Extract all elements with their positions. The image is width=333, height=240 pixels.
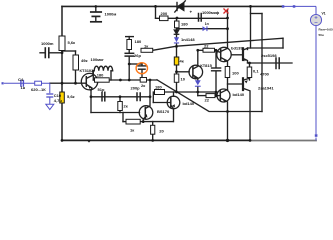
svg-text:bd140: bd140	[183, 101, 195, 106]
svg-text:10: 10	[181, 77, 186, 82]
svg-text:Rser=0.05: Rser=0.05	[319, 28, 333, 32]
svg-text:BS170: BS170	[157, 109, 170, 114]
svg-text:V1: V1	[322, 12, 326, 16]
svg-text:49к: 49к	[81, 58, 87, 63]
svg-text:100: 100	[232, 71, 239, 76]
svg-text:5,6к: 5,6к	[68, 40, 76, 45]
svg-text:200: 200	[161, 11, 168, 16]
svg-text:5,6к: 5,6к	[67, 94, 75, 99]
svg-text:26p: 26p	[134, 53, 141, 58]
svg-text:2к: 2к	[141, 83, 145, 88]
svg-text:1000мкф: 1000мкф	[202, 10, 220, 15]
svg-text:620...1К: 620...1К	[31, 87, 46, 92]
svg-text:22: 22	[205, 98, 210, 103]
svg-text:180: 180	[181, 22, 188, 27]
svg-text:100мкг: 100мкг	[91, 57, 105, 62]
svg-text:2к: 2к	[124, 104, 128, 109]
svg-text:20: 20	[159, 129, 164, 134]
svg-text:+: +	[190, 10, 193, 15]
svg-text:C4: C4	[18, 77, 24, 82]
svg-text:КТ815: КТ815	[200, 63, 212, 68]
svg-text:1к: 1к	[144, 44, 148, 49]
svg-text:4к: 4к	[180, 59, 184, 64]
svg-text:1n4148: 1n4148	[181, 37, 195, 42]
svg-text:1н: 1н	[205, 22, 209, 26]
svg-text:180: 180	[97, 73, 104, 78]
svg-text:1000м: 1000м	[105, 11, 117, 16]
svg-text:200p: 200p	[131, 86, 141, 91]
svg-text:4700: 4700	[260, 72, 270, 77]
svg-text:2sc5198: 2sc5198	[261, 53, 277, 58]
svg-text:1к: 1к	[130, 128, 134, 133]
svg-text:180: 180	[155, 85, 162, 90]
svg-text:51p: 51p	[98, 87, 105, 92]
svg-text:0,1: 0,1	[253, 69, 259, 74]
svg-text:4,7u: 4,7u	[54, 98, 63, 103]
svg-text:22: 22	[204, 44, 209, 49]
svg-text:1u: 1u	[21, 85, 26, 90]
svg-text:КТ3102: КТ3102	[80, 68, 95, 73]
svg-text:bd140: bd140	[233, 92, 245, 97]
svg-text:2sa1941: 2sa1941	[258, 86, 274, 91]
svg-text:bd139: bd139	[231, 46, 243, 51]
svg-text:50u: 50u	[319, 33, 324, 37]
svg-text:1000m: 1000m	[41, 41, 54, 46]
svg-text:180: 180	[135, 39, 142, 44]
